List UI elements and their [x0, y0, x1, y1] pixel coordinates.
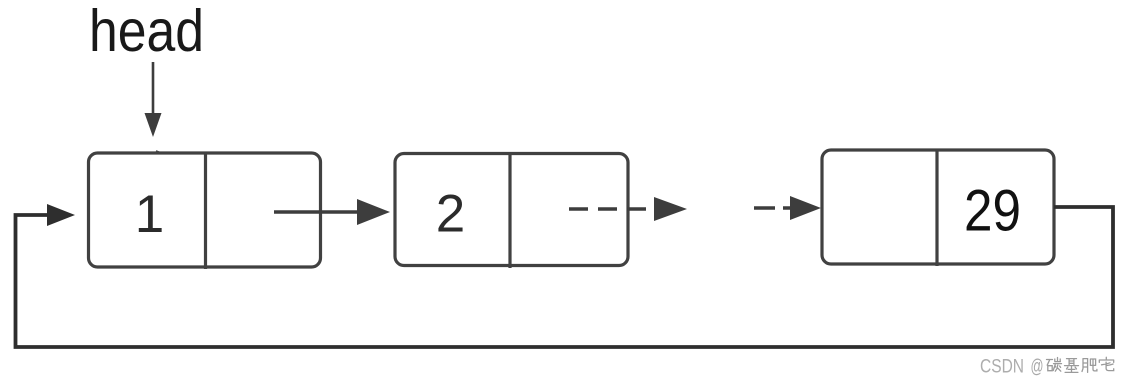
- svg-text:2: 2: [436, 185, 465, 244]
- loop wire node3 back to node1: [16, 204, 1114, 347]
- watermark glyph fei: [1082, 359, 1097, 373]
- node 1 box: [89, 153, 321, 267]
- svg-text:CSDN: CSDN: [980, 355, 1024, 377]
- arrow node1 to node2: [274, 199, 390, 225]
- dashed arrow into node3: [754, 196, 821, 220]
- head arrow tip residue on node1 top edge: [156, 151, 160, 153]
- node 2 box: [395, 154, 628, 266]
- watermark glyph tan: [1047, 358, 1062, 372]
- node 3 divider: [935, 150, 938, 266]
- svg-text:29: 29: [964, 179, 1021, 244]
- dashed arrow from node2: [569, 197, 687, 221]
- node 3 box: [822, 150, 1054, 264]
- svg-text:1: 1: [135, 185, 164, 244]
- watermark glyph ji: [1065, 359, 1079, 373]
- node 2 divider: [508, 154, 511, 269]
- node 1 divider: [204, 153, 207, 269]
- watermark glyph zhai: [1099, 357, 1113, 370]
- svg-text:@: @: [1031, 355, 1044, 377]
- head pointer arrow: [145, 62, 162, 137]
- svg-text:head: head: [89, 0, 204, 64]
